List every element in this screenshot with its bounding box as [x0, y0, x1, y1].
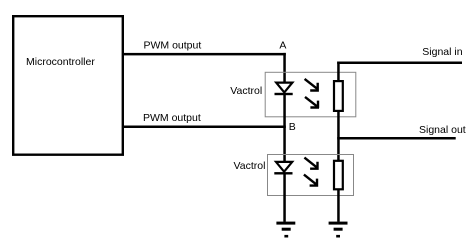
svg-text:Vactrol: Vactrol [230, 85, 262, 97]
LED D2 triangle [276, 162, 292, 172]
wire LED D2 cathode down to ground [283, 175, 286, 222]
svg-text:B: B [289, 121, 296, 133]
wire PWM output 1: MCU to node A [124, 53, 286, 56]
LED D1 triangle [276, 83, 292, 93]
photoresistor R2 [334, 161, 343, 190]
wire node A down to LED D1 anode [283, 53, 286, 83]
svg-text:A: A [279, 40, 286, 52]
node B [289, 121, 296, 133]
LED D2 light arrow 2 [304, 175, 318, 186]
label Vactrol (top) [230, 85, 262, 97]
microcontroller U1 [13, 16, 123, 155]
wire Signal out horizontal [337, 137, 456, 140]
vactrol U2 enclosure box [265, 72, 356, 117]
LED D2 cathode bar [274, 172, 292, 174]
label Signal in [422, 46, 462, 58]
svg-text:PWM output: PWM output [143, 112, 201, 124]
LED D2 light arrow 1 [304, 158, 318, 169]
ground GND2 (under photoresistors) [329, 222, 348, 238]
svg-text:Signal in: Signal in [422, 46, 462, 58]
svg-text:Vactrol: Vactrol [234, 160, 266, 172]
wire R1 bottom through signal-out junction to R2 top [337, 111, 340, 162]
node A [279, 40, 286, 52]
wire Signal in horizontal [337, 62, 462, 65]
wire signal-in corner down to R1 [337, 62, 340, 82]
svg-text:Signal out: Signal out [419, 124, 466, 136]
ground GND1 (under LEDs) [276, 222, 295, 238]
wire PWM output 2: MCU to node B [124, 126, 286, 129]
label Signal out [419, 124, 466, 136]
svg-text:Microcontroller: Microcontroller [26, 56, 95, 68]
LED D1 light arrow 2 [305, 97, 319, 108]
svg-text:PWM output: PWM output [144, 39, 202, 51]
wire R2 bottom down to ground [337, 189, 340, 222]
label Vactrol (bottom) [234, 160, 266, 172]
label PWM output (bottom) [143, 112, 201, 124]
photoresistor R1 [334, 81, 343, 111]
vactrol U3 enclosure box [268, 155, 354, 196]
label PWM output (top) [144, 39, 202, 51]
LED D1 light arrow 1 [305, 79, 319, 91]
wire LED D1 cathode to node B to LED D2 anode [283, 95, 286, 162]
LED D1 cathode bar [275, 93, 293, 95]
microcontroller label [26, 56, 95, 68]
